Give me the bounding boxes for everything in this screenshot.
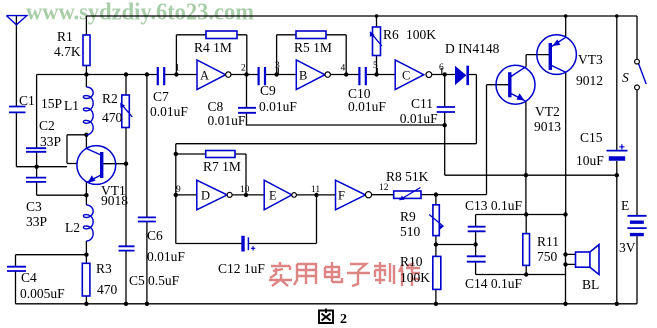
- svg-text:33P: 33P: [40, 134, 61, 149]
- svg-text:B: B: [299, 69, 307, 83]
- svg-text:E: E: [621, 198, 629, 213]
- svg-text:C6: C6: [147, 228, 163, 243]
- svg-text:0.01uF: 0.01uF: [259, 99, 297, 114]
- svg-text:R4 1M: R4 1M: [194, 40, 232, 55]
- svg-text:R10: R10: [400, 254, 423, 269]
- svg-text:S: S: [622, 70, 629, 85]
- svg-text:0.01uF: 0.01uF: [208, 113, 246, 128]
- svg-text:100K: 100K: [406, 27, 436, 42]
- svg-text:3V: 3V: [619, 240, 636, 255]
- svg-text:www.sydzdiy.6to23.com: www.sydzdiy.6to23.com: [26, 0, 254, 26]
- svg-text:R5 1M: R5 1M: [294, 40, 332, 55]
- svg-text:C1: C1: [19, 93, 35, 108]
- svg-text:3: 3: [275, 61, 280, 71]
- svg-text:VT3: VT3: [578, 52, 603, 67]
- svg-text:C13 0.1uF: C13 0.1uF: [465, 198, 523, 213]
- svg-text:R3: R3: [96, 261, 112, 276]
- svg-text:F: F: [338, 189, 345, 203]
- svg-text:10uF: 10uF: [576, 153, 604, 168]
- svg-text:R9: R9: [400, 209, 416, 224]
- svg-text:R8 51K: R8 51K: [386, 169, 429, 184]
- svg-text:C11: C11: [411, 96, 433, 111]
- svg-text:L1: L1: [64, 98, 79, 113]
- svg-text:0.5uF: 0.5uF: [148, 273, 180, 288]
- svg-text:750: 750: [537, 249, 558, 264]
- svg-text:C4: C4: [21, 270, 37, 285]
- svg-text:VT2: VT2: [535, 104, 560, 119]
- svg-text:12: 12: [379, 183, 389, 193]
- svg-text:470: 470: [102, 110, 123, 125]
- svg-text:C15: C15: [580, 130, 603, 145]
- svg-text:R1: R1: [57, 29, 73, 44]
- svg-text:470: 470: [97, 282, 118, 297]
- svg-text:15P: 15P: [41, 96, 62, 111]
- svg-text:C3: C3: [26, 199, 42, 214]
- svg-text:33P: 33P: [26, 214, 47, 229]
- svg-text:6: 6: [439, 63, 444, 73]
- svg-text:C: C: [402, 69, 410, 83]
- svg-text:R6: R6: [383, 27, 399, 42]
- svg-text:C14 0.1uF: C14 0.1uF: [465, 276, 523, 291]
- svg-text:0.01uF: 0.01uF: [147, 249, 185, 264]
- svg-text:11: 11: [311, 185, 320, 195]
- svg-text:R7 1M: R7 1M: [203, 159, 241, 174]
- svg-text:C12 1uF: C12 1uF: [218, 261, 265, 276]
- svg-text:D: D: [201, 189, 210, 203]
- svg-text:C2: C2: [39, 118, 55, 133]
- svg-text:A: A: [200, 69, 209, 83]
- svg-text:4: 4: [341, 64, 346, 74]
- svg-text:9013: 9013: [534, 119, 561, 134]
- svg-text:510: 510: [400, 224, 421, 239]
- svg-text:9: 9: [176, 185, 181, 195]
- svg-text:C5: C5: [129, 273, 145, 288]
- svg-text:BL: BL: [582, 277, 599, 292]
- svg-text:0.005uF: 0.005uF: [20, 286, 65, 301]
- svg-text:R11: R11: [537, 234, 559, 249]
- svg-text:4.7K: 4.7K: [54, 44, 81, 59]
- svg-text:2: 2: [241, 64, 246, 74]
- svg-text:C7: C7: [153, 89, 169, 104]
- svg-text:9018: 9018: [101, 193, 128, 208]
- svg-text:10: 10: [240, 185, 250, 195]
- svg-text:E: E: [269, 189, 277, 203]
- svg-text:2: 2: [340, 312, 347, 327]
- svg-text:100K: 100K: [400, 270, 430, 285]
- svg-text:5: 5: [373, 61, 378, 71]
- svg-text:1: 1: [175, 64, 180, 74]
- svg-text:0.01uF: 0.01uF: [348, 99, 386, 114]
- svg-text:D IN4148: D IN4148: [445, 41, 500, 56]
- svg-text:0.01uF: 0.01uF: [150, 104, 188, 119]
- svg-text:R2: R2: [102, 91, 118, 106]
- svg-text:9012: 9012: [576, 73, 603, 88]
- svg-text:C8: C8: [208, 99, 224, 114]
- svg-text:0.01uF: 0.01uF: [400, 111, 438, 126]
- svg-text:L2: L2: [65, 220, 80, 235]
- svg-text:C9: C9: [260, 83, 276, 98]
